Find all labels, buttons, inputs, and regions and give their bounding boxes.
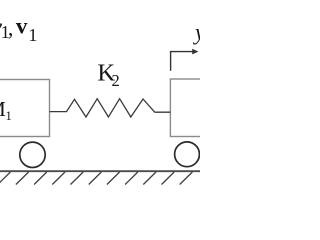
- wheel left: [20, 142, 45, 167]
- svg-text:1: 1: [6, 109, 12, 123]
- svg-text:y: y: [193, 20, 200, 45]
- ground hatching: [0, 172, 192, 185]
- svg-text:2: 2: [112, 71, 120, 90]
- svg-text:,: ,: [8, 15, 13, 40]
- ground line: [0, 170, 200, 172]
- svg-text:v: v: [16, 14, 28, 39]
- displacement arrow: [171, 52, 194, 71]
- spring K2: [50, 99, 171, 117]
- mass M1 box: [0, 80, 50, 137]
- svg-text:1: 1: [28, 25, 37, 45]
- mass M2 box: [170, 79, 230, 137]
- wheel right: [175, 142, 200, 167]
